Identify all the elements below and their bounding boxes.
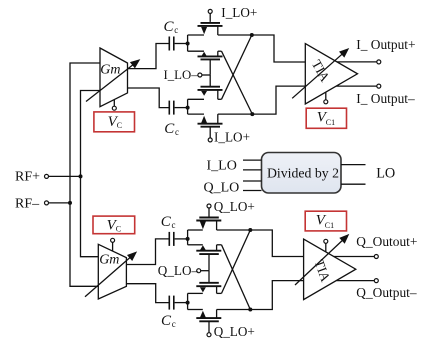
wire node B vertical (T3 source to T4 source)	[187, 99, 189, 114]
label Vc1 box top	[317, 109, 335, 127]
svg-text:I_LO+: I_LO+	[221, 5, 257, 20]
svg-text:Q_LO: Q_LO	[204, 180, 240, 195]
wire TIA2 output+	[334, 256, 374, 258]
svg-text:Divided by 2: Divided by 2	[267, 165, 339, 180]
arrow TIA2 variable	[295, 234, 349, 285]
label Vc box 1	[108, 114, 123, 130]
divider block Divided by 2	[262, 153, 342, 194]
wire LO stub 1	[341, 164, 366, 166]
label Vc1 box bottom	[316, 212, 334, 230]
arrow TIA1 variable	[292, 48, 349, 98]
wire right bus (Gm1 lower input to Gm2 lower input)	[81, 91, 101, 257]
svg-text:Q_LO–: Q_LO–	[158, 263, 199, 278]
svg-text:I_LO: I_LO	[207, 158, 237, 173]
junction I top rail	[250, 33, 254, 37]
node Q_Output- terminal	[374, 279, 378, 283]
node RF+ terminal	[45, 174, 49, 178]
svg-text:Gm: Gm	[100, 62, 120, 77]
wire Gm1 upper output to Cc1	[128, 44, 169, 69]
op-amp TIA1 body	[305, 44, 357, 104]
svg-text:C1: C1	[326, 118, 335, 127]
node I_Output- terminal	[377, 84, 381, 88]
wire Q_LO stub 1	[243, 180, 262, 182]
wire TIA2 output-	[337, 280, 375, 282]
wire TIA2 control stub	[325, 243, 327, 252]
wire TIA1 control stub	[325, 92, 327, 100]
wire I top rail to TIA1 + input	[218, 35, 305, 62]
junction RF- on left bus	[68, 201, 72, 205]
svg-text:C: C	[164, 121, 175, 137]
op-amp TIA2 body	[304, 239, 356, 300]
capacitor Cc1 plates	[169, 37, 174, 51]
junction node D	[186, 301, 190, 305]
box Vc1 (TIA1 control)	[306, 108, 346, 128]
label Cc4	[161, 313, 176, 329]
wire Gm2 upper output to Cc3	[126, 239, 168, 265]
svg-text:c: c	[172, 220, 176, 230]
transistor T7 (Q_LO- lower switch)	[188, 271, 222, 294]
wire TIA1 output+	[337, 61, 377, 63]
wire Q top rail to TIA2 + input	[217, 230, 304, 257]
transistor T4 (I_LO+ lower switch)	[188, 114, 223, 142]
transistor T3 (I_LO- lower switch)	[188, 75, 223, 99]
wire Q_LO stub 2	[243, 190, 262, 192]
svg-text:Q_LO+: Q_LO+	[214, 199, 255, 214]
wire Cc2 to node B	[175, 107, 188, 109]
wire Cc3 to node C	[175, 238, 188, 240]
wire cross T7-drain to top rail	[222, 230, 251, 293]
box Vc1 (Gm1 control)	[94, 112, 135, 132]
junction RF+ on right bus	[79, 174, 83, 178]
transistor T6 (Q_LO- upper switch)	[188, 245, 222, 271]
svg-text:c: c	[172, 319, 176, 329]
junction node B	[186, 106, 190, 110]
capacitor Cc4 plates	[169, 296, 174, 310]
svg-text:C: C	[116, 225, 121, 234]
arrow Gm1 variable	[86, 59, 140, 101]
svg-text:C1: C1	[325, 221, 334, 230]
wire left bus (Gm1 upper input to Gm2 upper input)	[70, 63, 100, 286]
node Gm1 control terminal	[112, 106, 116, 110]
wire cross T6-drain to bottom rail	[222, 245, 251, 310]
wire Gm1 lower output to Cc2	[128, 88, 169, 108]
wire I_LO stub 1	[243, 159, 262, 161]
svg-text:C: C	[164, 19, 175, 35]
svg-text:C: C	[117, 121, 122, 130]
svg-text:Gm: Gm	[99, 253, 119, 268]
svg-text:c: c	[175, 127, 179, 137]
wire Q bottom rail to TIA2 - input	[217, 281, 304, 310]
label Cc2	[164, 121, 179, 137]
svg-text:Q_Outout+: Q_Outout+	[356, 234, 417, 249]
junction node A	[186, 42, 190, 46]
svg-text:LO: LO	[376, 166, 395, 182]
label Cc1	[164, 19, 179, 35]
svg-text:I_ Output+: I_ Output+	[356, 37, 415, 52]
svg-text:c: c	[174, 25, 178, 35]
wire Gm1 tuning stub	[113, 100, 115, 106]
wire Cc4 to node D	[175, 302, 188, 304]
transconductor Gm1 body	[100, 48, 128, 107]
wire cross T3-drain to top rail	[222, 35, 252, 99]
label Cc3	[161, 214, 176, 230]
svg-text:C: C	[161, 214, 172, 230]
box Vc1 (TIA2 control)	[305, 211, 346, 231]
node Q_Outout+ terminal	[374, 255, 378, 259]
transistor T5 (Q_LO+ upper switch)	[188, 204, 222, 230]
capacitor Cc3 plates	[169, 232, 174, 246]
wire Gm2 tuning stub	[112, 242, 114, 251]
svg-text:RF–: RF–	[15, 196, 40, 211]
capacitor Cc2 plates	[169, 101, 174, 115]
node I_Output+ terminal	[377, 60, 381, 64]
label Vc box 2	[107, 217, 122, 233]
wire LO stub 2	[341, 183, 366, 185]
svg-text:I_LO–: I_LO–	[164, 68, 199, 82]
node RF- terminal	[45, 201, 49, 205]
wire Gm2 lower output to Cc4	[126, 284, 168, 303]
wire I_LO stub 2	[243, 169, 262, 171]
node TIA1 control terminal	[324, 100, 328, 104]
svg-text:Q_LO+: Q_LO+	[214, 324, 255, 339]
wire node D vertical (T7 source to T8 source)	[187, 293, 189, 309]
junction node C	[186, 237, 190, 241]
node I_LO- terminal	[198, 73, 210, 77]
junction Q top rail	[248, 228, 252, 232]
wire node C vertical (T5 source to T6 source)	[187, 230, 189, 245]
transistor T2 (I_LO- upper switch)	[188, 51, 223, 75]
arrow Gm2 variable	[85, 251, 137, 296]
svg-text:C: C	[161, 313, 172, 329]
wire TIA1 output-	[336, 85, 377, 87]
junction I bottom rail	[250, 112, 254, 116]
node TIA2 control terminal	[324, 239, 328, 243]
svg-text:I_ Output–: I_ Output–	[356, 91, 415, 106]
svg-text:I_LO+: I_LO+	[214, 129, 250, 144]
wire cross T2-drain to bottom rail	[222, 51, 253, 114]
wire RF+ to right bus	[49, 175, 81, 177]
junction Q bottom rail	[248, 308, 252, 312]
svg-text:RF+: RF+	[15, 170, 40, 185]
svg-text:TIA: TIA	[311, 257, 333, 284]
node Q_LO- terminal	[197, 269, 209, 273]
wire Cc1 to node A	[175, 43, 188, 45]
node Gm2 control terminal	[111, 238, 115, 242]
box Vc2 (Gm2 control)	[93, 216, 135, 234]
wire RF- to left bus	[49, 202, 70, 204]
transistor T1 (I_LO+ upper switch)	[188, 9, 223, 35]
wire node A vertical (T1 source to T2 source)	[187, 35, 189, 51]
wire I bottom rail to TIA1 - input	[218, 86, 305, 114]
transconductor Gm2 body	[98, 244, 126, 299]
svg-text:Q_Output–: Q_Output–	[356, 285, 417, 300]
transistor T8 (Q_LO+ lower switch)	[188, 310, 222, 337]
